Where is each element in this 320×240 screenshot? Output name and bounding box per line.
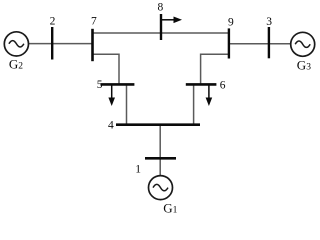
load arrow at bus 6 [206, 86, 213, 107]
svg-text:4: 4 [108, 119, 114, 131]
load arrow at bus 5 [108, 86, 115, 107]
svg-text:8: 8 [158, 2, 164, 14]
svg-text:2: 2 [50, 16, 56, 28]
wire bus 4 to bus 1 to G1 [159, 125, 161, 176]
svg-text:G2: G2 [9, 56, 23, 71]
svg-text:6: 6 [220, 79, 226, 91]
svg-text:5: 5 [97, 79, 103, 91]
wire bus 5 to bus 4 [126, 84, 128, 125]
svg-text:9: 9 [228, 17, 234, 29]
wire bus 6 to bus 4 [193, 84, 195, 125]
bus 5 [101, 83, 135, 86]
wire G2 to bus 2 to bus 7 [29, 43, 93, 45]
wire bus 9 to bus 3 to G3 [228, 43, 291, 45]
bus 9 [228, 28, 230, 58]
bus 6 [186, 83, 217, 86]
bus 3 [268, 27, 270, 58]
svg-text:1: 1 [135, 163, 141, 175]
wire bus 9 to bus 6 [201, 54, 229, 85]
wire bus 7 to bus 5 [92, 54, 119, 85]
svg-text:G3: G3 [297, 57, 311, 72]
generator G1 [149, 176, 173, 200]
wire bus 7 to bus 9 through bus 8 [92, 32, 229, 34]
svg-text:7: 7 [91, 15, 97, 27]
bus 1 [145, 157, 176, 160]
svg-text:3: 3 [266, 16, 272, 28]
bus 8 [160, 14, 162, 40]
bus 4 [116, 123, 200, 126]
load arrow at bus 8 [162, 17, 183, 24]
generator G3 [291, 32, 315, 56]
svg-text:G1: G1 [163, 201, 177, 216]
bus 2 [51, 27, 53, 60]
generator G2 [4, 32, 28, 56]
bus 7 [91, 29, 94, 61]
